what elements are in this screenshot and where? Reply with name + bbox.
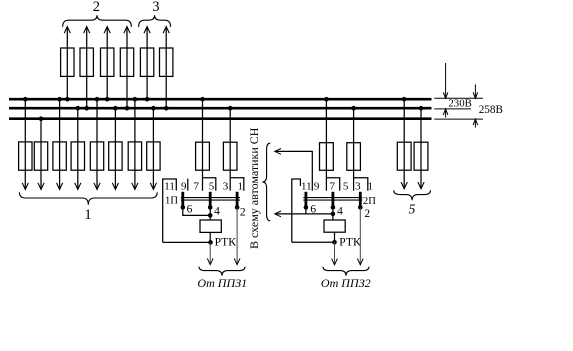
wire pin2 to PPZ2 — [359, 207, 361, 263]
brace group 5 — [394, 190, 431, 200]
junction lower feeder 3 on bus — [57, 97, 62, 102]
wire pin11 to RTK node (2P) — [292, 241, 335, 243]
fuse FU1.8 — [147, 142, 160, 170]
svg-text:3: 3 — [152, 0, 159, 15]
svg-text:9: 9 — [314, 181, 320, 193]
fuse FU2.2 — [80, 48, 93, 76]
wire (lower feeder 6) — [114, 108, 116, 189]
svg-text:2: 2 — [93, 0, 100, 15]
relay RTK coil (block 1) — [200, 220, 221, 232]
arrow down feeder 8 — [150, 183, 156, 190]
wire pin2 to PPZ1 — [236, 207, 238, 263]
arrow up feeder 2 — [84, 27, 90, 34]
svg-text:7: 7 — [193, 181, 199, 193]
svg-text:2: 2 — [364, 208, 370, 220]
contact bar 6 (2P) — [304, 192, 307, 207]
arrow up feeder 5 — [144, 27, 150, 34]
dimension line 258V lower — [474, 119, 476, 127]
fuse FU1.6 — [109, 142, 122, 170]
node 4 (2P) — [331, 205, 336, 210]
svg-text:1П: 1П — [165, 196, 178, 207]
junction lower feeder 7 on bus — [133, 97, 138, 102]
arrow up feeder 4 — [124, 27, 130, 34]
node 2 — [235, 205, 240, 210]
svg-text:258В: 258В — [479, 104, 503, 116]
relay RTK coil (block 2) — [324, 220, 345, 232]
arrow to PPZ2 (left) — [332, 259, 338, 265]
junction feeder 3 on bus — [105, 97, 110, 102]
junction lower feeder 1 on bus — [23, 97, 28, 102]
fuse FU5.1 — [397, 142, 411, 170]
node 6 — [181, 205, 186, 210]
svg-text:От ППЗ1: От ППЗ1 — [197, 276, 247, 290]
wire 6 to 4 (2P) — [306, 213, 333, 215]
wire fuse to pin 1 (block 1) — [229, 108, 231, 191]
wire 4 to RTK coil — [209, 207, 211, 220]
extension line bus L2 — [434, 108, 471, 110]
contact bar 4 (2P) — [331, 192, 334, 207]
junction 6-4 (2P) — [331, 212, 336, 217]
junction feeder 6 on bus — [164, 106, 169, 111]
pin separator tick — [187, 179, 189, 191]
brace from PPZ2 — [323, 267, 369, 276]
arrow down feeder 7 — [132, 183, 138, 190]
node 6 (2P) — [304, 205, 309, 210]
junction feeder 1 on bus — [65, 97, 70, 102]
node 2 (2P) — [358, 205, 363, 210]
arrow up feeder 1 — [64, 27, 70, 34]
brace group 1 — [19, 192, 157, 205]
svg-text:1: 1 — [367, 181, 373, 193]
wire (feeder 5a) — [403, 99, 405, 189]
wire RTK to PPZ1 — [209, 242, 211, 263]
brace SN automation — [262, 143, 270, 221]
brace group 2 — [63, 15, 132, 27]
arrow down feeder 1 — [22, 183, 28, 190]
brace from PPZ1 — [199, 267, 245, 276]
dimension arrow 258V up — [473, 119, 478, 125]
brace group 3 — [139, 15, 171, 27]
fuse FU4.1 — [320, 143, 334, 171]
wire 6 to 4 — [183, 207, 210, 215]
svg-text:7: 7 — [329, 181, 335, 193]
fuse FU2.4 — [120, 48, 133, 76]
dimension line 230V lower — [445, 109, 447, 118]
wire (upper feeder 4) — [126, 27, 128, 109]
arrow down feeder 3 — [57, 183, 63, 190]
svg-text:5: 5 — [209, 181, 215, 193]
dimension arrow 230V up — [443, 109, 448, 115]
junction feeder 5 on bus — [145, 97, 150, 102]
svg-text:1: 1 — [238, 181, 244, 193]
svg-text:3: 3 — [223, 181, 229, 193]
dimension line 258V upper — [474, 85, 476, 99]
arrow to PPZ1 (left) — [207, 258, 213, 264]
arrow feeder 5b — [418, 182, 424, 189]
junction on bus L2 (block 2) — [351, 106, 356, 111]
fuse FU3.2 — [223, 142, 237, 170]
svg-text:2П: 2П — [363, 196, 376, 207]
junction on bus L1 — [200, 97, 205, 102]
wire to SN automation (lower) — [275, 207, 306, 214]
wire (lower feeder 2) — [40, 119, 42, 190]
fuse FU5.2 — [414, 142, 428, 170]
wire to SN automation (upper) — [275, 151, 313, 190]
bus L3 (258V) — [9, 117, 432, 120]
wire RTK coil to node — [209, 232, 211, 242]
wire fuse to pin 5 (block 1) — [202, 99, 204, 191]
svg-text:11: 11 — [164, 181, 175, 193]
fuse FU3.1 — [196, 142, 210, 170]
fuse FU4.2 — [347, 143, 361, 171]
fuse FU1.1 — [19, 142, 32, 170]
junction feeder 4 on bus — [125, 106, 130, 111]
junction feeder 5a — [402, 97, 407, 102]
svg-text:5: 5 — [343, 181, 349, 193]
svg-text:1: 1 — [84, 207, 91, 223]
svg-text:РТК: РТК — [339, 235, 361, 248]
fuse FU2.5 — [140, 48, 153, 76]
svg-text:6: 6 — [187, 204, 193, 216]
wire (lower feeder 4) — [77, 108, 79, 189]
dimension arrow 230V down — [443, 92, 448, 98]
fuse FU1.5 — [90, 142, 103, 170]
fuse FU1.4 — [71, 142, 84, 170]
dimension line 230V upper — [445, 63, 447, 98]
wire fuse to pin 3 (block 2) — [353, 108, 355, 191]
junction feeder 2 on bus — [84, 106, 89, 111]
wire 4 to RTK coil (2P) — [332, 207, 334, 220]
wire (lower feeder 1) — [24, 99, 26, 189]
wire fuse to pin 7 (block 2) — [325, 99, 327, 191]
fuse FU2.3 — [101, 48, 114, 76]
svg-text:2: 2 — [240, 206, 246, 218]
plug bracket pin 1 — [230, 178, 244, 191]
junction lower feeder 4 on bus — [76, 106, 81, 111]
junction on bus L1 (block 2) — [324, 97, 329, 102]
fuse FU1.3 — [53, 142, 66, 170]
svg-text:230В: 230В — [448, 98, 471, 110]
connector 1P pin 11 bracket — [163, 179, 177, 242]
junction lower feeder 6 on bus — [113, 106, 118, 111]
svg-text:От ППЗ2: От ППЗ2 — [321, 276, 371, 290]
junction feeder 5b — [419, 106, 424, 111]
wire pin11 to RTK node — [163, 241, 211, 243]
node 4 — [208, 205, 213, 210]
junction lower feeder 8 on bus — [151, 106, 156, 111]
svg-text:5: 5 — [409, 201, 416, 216]
arrow down feeder 2 — [38, 183, 44, 190]
junction lower feeder 2 on bus — [39, 116, 44, 121]
terminal strip bus (block 1) — [181, 197, 240, 199]
wire (lower feeder 5) — [96, 99, 98, 189]
fuse FU1.2 — [34, 142, 47, 170]
dimension arrow 258V down — [473, 92, 478, 98]
node RTK (2P) — [332, 240, 337, 245]
contact bar 2 — [236, 192, 239, 207]
wire (feeder 5b) — [420, 108, 422, 189]
wire (upper feeder 3) — [106, 27, 108, 100]
arrow to PPZ2 (right) — [357, 259, 363, 265]
arrow to SN automation lower — [275, 211, 281, 217]
fuse FU1.7 — [128, 142, 141, 170]
wire (lower feeder 8) — [152, 108, 154, 189]
junction lower feeder 5 on bus — [95, 97, 100, 102]
svg-text:4: 4 — [214, 206, 220, 218]
arrow to SN automation upper — [275, 149, 281, 155]
fuse FU2.1 — [61, 48, 74, 76]
arrow feeder 5a — [401, 182, 407, 189]
plug bracket pin 5 — [203, 178, 216, 191]
contact bar 6 — [181, 192, 184, 207]
svg-text:В схему автоматики СН: В схему автоматики СН — [247, 127, 261, 249]
wire (lower feeder 3) — [59, 99, 61, 189]
fuse FU2.6 — [160, 48, 173, 76]
node RTK — [208, 240, 213, 245]
svg-text:4: 4 — [337, 206, 343, 218]
svg-text:9: 9 — [181, 181, 187, 193]
svg-text:РТК: РТК — [215, 235, 237, 248]
wire (upper feeder 5) — [146, 27, 148, 100]
bus L2 (230V) — [9, 107, 432, 110]
plug bracket pin 3 — [354, 178, 368, 191]
arrow up feeder 6 — [163, 27, 169, 34]
wire RTK to PPZ2 — [334, 242, 336, 264]
junction 6-4 — [208, 213, 213, 218]
svg-text:11: 11 — [301, 181, 312, 193]
wire (lower feeder 7) — [134, 99, 136, 189]
wire RTK coil to node (2P) — [334, 232, 336, 242]
contact bar 4 — [209, 192, 212, 207]
connector 2P pin 11 bracket — [292, 179, 301, 242]
extension line bus L3 — [434, 118, 483, 120]
junction on bus L2 — [228, 106, 233, 111]
contact bar 2 (2P) — [359, 192, 362, 207]
plug bracket pin 7 — [326, 178, 339, 191]
wire (upper feeder 6) — [165, 27, 167, 109]
bus L1 (+) — [9, 98, 432, 101]
arrow up feeder 3 — [104, 27, 110, 34]
svg-text:3: 3 — [355, 181, 361, 193]
wire (upper feeder 1) — [66, 27, 68, 100]
terminal strip bus (block 2) — [303, 197, 362, 199]
extension line bus L1 — [434, 97, 483, 99]
arrow to PPZ1 (right) — [234, 258, 240, 264]
arrow down feeder 4 — [75, 183, 81, 190]
arrow down feeder 6 — [112, 183, 118, 190]
wire (upper feeder 2) — [86, 27, 88, 109]
arrow down feeder 5 — [94, 183, 100, 190]
